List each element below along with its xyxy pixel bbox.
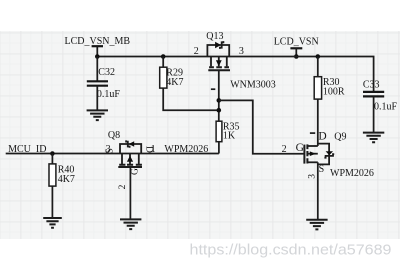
resistor R30 (314, 77, 345, 99)
svg-text:3: 3 (308, 174, 318, 179)
gate bar (208, 69, 230, 71)
channel stubs (122, 154, 139, 165)
body diode of Q9 (326, 151, 333, 155)
wire R35 bottom lead (218, 142, 220, 154)
gate bar (303, 145, 305, 164)
channel segments (119, 164, 142, 166)
wire Q9 source to ground (317, 162, 319, 219)
body diode of Q13 (215, 42, 221, 48)
wire R30 bottom to Q9 drain (317, 99, 319, 146)
transistor Q8 (105, 130, 209, 190)
body diode loop (207, 45, 229, 57)
channel segments (209, 66, 229, 68)
junction at C32 tap (95, 54, 100, 59)
svg-text:WPM2026: WPM2026 (330, 168, 374, 179)
svg-text:3: 3 (239, 46, 244, 57)
resistor R40 (49, 164, 75, 186)
svg-text:C33: C33 (363, 80, 380, 91)
channel segments (306, 144, 308, 163)
pin 1 (rotated) (310, 132, 315, 134)
capacitor C33 (363, 80, 398, 113)
ground below C33 (363, 133, 384, 143)
ground below Q8 (120, 219, 141, 229)
junction at R30 top (316, 54, 321, 59)
source stub (307, 161, 317, 163)
svg-text:WPM2026: WPM2026 (164, 144, 208, 155)
capacitor C32 (87, 67, 121, 100)
svg-text:WNM3003: WNM3003 (230, 80, 276, 91)
wire R40 bottom lead (51, 186, 53, 218)
svg-text:2: 2 (282, 144, 287, 155)
junction at R29 top (161, 54, 166, 59)
transistor Q13 (194, 31, 276, 91)
body diode of Q8 (129, 141, 135, 146)
svg-text:S: S (105, 148, 116, 154)
wire gate node to Q9 gate (219, 100, 304, 153)
ground below Q9 (306, 220, 327, 230)
power port LCD_VSN (274, 36, 319, 56)
wire R40 top lead (51, 154, 53, 164)
resistor R29 (160, 67, 184, 88)
svg-text:C32: C32 (98, 67, 115, 78)
junction at LCD_VSN stub (294, 54, 299, 59)
wire MCU_ID to Q8 and R35 (6, 153, 219, 155)
svg-text:0.1uF: 0.1uF (97, 89, 121, 100)
svg-text:Q9: Q9 (334, 132, 346, 143)
gate bar (118, 166, 142, 168)
svg-text:1K: 1K (223, 131, 236, 142)
junction at R40 tap (50, 151, 55, 156)
substrate arrow (310, 151, 316, 156)
svg-text:LCD_VSN: LCD_VSN (274, 36, 319, 47)
wire LCD_VSN_MB node to Q13 source (97, 56, 229, 58)
channel stubs (211, 57, 227, 67)
wire R30 top lead (317, 57, 319, 77)
wire C33 bottom lead (373, 96, 375, 132)
svg-text:2: 2 (118, 184, 128, 189)
drain stub (307, 145, 317, 147)
body diode loop (120, 144, 141, 154)
junction at Q9 gate branch (217, 98, 222, 103)
svg-text:Q8: Q8 (108, 130, 120, 141)
svg-text:4K7: 4K7 (58, 174, 75, 185)
resistor R35 (216, 121, 239, 142)
svg-text:https://blog.csdn.net/a57689: https://blog.csdn.net/a57689 (190, 242, 392, 259)
body diode loop (318, 144, 329, 165)
ground below C32 (87, 110, 108, 120)
svg-text:1: 1 (151, 144, 156, 155)
wire Q8 gate to ground (129, 167, 131, 219)
svg-text:D: D (318, 131, 326, 143)
power port LCD_VSN_MB (65, 36, 131, 57)
wire C32 top lead (96, 57, 98, 82)
svg-text:Q13: Q13 (206, 31, 223, 42)
wire R29 bottom lead to Q13 gate node (163, 88, 219, 110)
wire Q13 gate down to R35 (218, 70, 220, 121)
substrate arrow (127, 156, 133, 162)
junction at R29 branch (217, 108, 222, 113)
pin 1 (rotated) (211, 88, 215, 90)
svg-text:100R: 100R (323, 86, 345, 97)
transistor Q9 (282, 131, 374, 179)
ground below R40 (43, 218, 62, 228)
substrate arrow (216, 60, 222, 66)
svg-text:2: 2 (194, 46, 199, 57)
svg-text:4K7: 4K7 (166, 77, 183, 88)
substrate stub (307, 153, 317, 155)
svg-text:G: G (131, 168, 141, 175)
svg-text:0.1uF: 0.1uF (374, 102, 398, 113)
wire Q13 drain to C33 corner (229, 57, 374, 92)
wire C32 bottom lead (96, 86, 98, 111)
svg-text:S: S (319, 164, 325, 175)
wire R29 top lead (162, 57, 164, 68)
svg-text:G: G (296, 142, 304, 154)
